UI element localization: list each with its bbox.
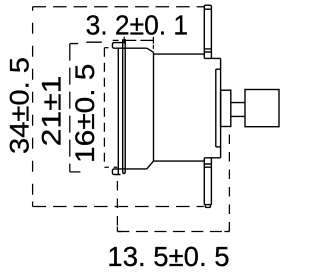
dimension 3.2±0.1 right extension dash xyxy=(152,45,154,52)
dimension 3.2±0.1 left end tick xyxy=(123,37,125,44)
top terminal pin outline xyxy=(204,5,211,58)
svg-text:3. 2±0. 1: 3. 2±0. 1 xyxy=(86,9,189,40)
bottom terminal pin tip xyxy=(205,205,210,208)
top terminal pin crimp lines xyxy=(204,49,211,52)
frame inner bottom cap xyxy=(216,146,221,148)
dimension 16±0.5 top arm dashed xyxy=(104,47,108,49)
cover top crimp lip xyxy=(112,43,146,49)
dimension 16±0.5 vertical dashed line xyxy=(103,48,105,168)
body bottom-left chamfer xyxy=(147,161,154,169)
dimension 34±0.5 bottom extension dashed line xyxy=(33,206,204,208)
frame outer right edge xyxy=(220,58,222,157)
svg-text:13. 5±0. 5: 13. 5±0. 5 xyxy=(107,241,229,272)
cover inner wall xyxy=(117,48,119,174)
bushing xyxy=(221,90,231,126)
body top step line xyxy=(204,57,220,59)
dimension 13.5±0.5 left extension dashed vertical xyxy=(116,181,118,232)
body top flat xyxy=(154,53,205,55)
frame inner top cap xyxy=(216,68,221,70)
dimension 13.5±0.5 dimension dashed line xyxy=(117,231,229,233)
dimension 21±1 bottom arm xyxy=(70,171,81,173)
bottom terminal pin outline xyxy=(204,158,211,205)
bottom terminal pin crimp lines xyxy=(204,164,211,167)
dimension 3.2±0.1 right end tick xyxy=(152,37,154,44)
dimension 21±1 vertical dashed line xyxy=(69,44,71,172)
rotor plate edge-on xyxy=(123,40,126,174)
bottom terminal pin cap line xyxy=(204,204,211,206)
svg-text:16±0. 5: 16±0. 5 xyxy=(70,64,100,163)
dimension 13.5±0.5 right extension dashed vertical xyxy=(228,129,230,232)
body bottom flat xyxy=(154,160,205,162)
frame inner edge xyxy=(215,69,217,147)
dimension 3.2±0.1 dashed dimension line xyxy=(113,39,154,41)
knob xyxy=(245,90,279,127)
cover bottom crimp lip xyxy=(112,169,146,175)
dimension 16±0.5 bottom arm dashed xyxy=(104,166,117,168)
dimension 34±0.5 top extension dashed line xyxy=(33,6,205,8)
rotor plate top cap xyxy=(122,39,126,41)
body bottom step line xyxy=(204,157,220,159)
dimension leader corner stubs xyxy=(33,202,230,232)
svg-text:34±0. 5: 34±0. 5 xyxy=(5,57,35,154)
dimension 21±1 top arm xyxy=(70,42,102,43)
top terminal pin cap line xyxy=(204,8,211,10)
svg-text:21±1: 21±1 xyxy=(37,76,67,147)
shaft xyxy=(231,103,245,117)
body top-left chamfer xyxy=(147,48,154,52)
body left edge xyxy=(153,52,155,161)
dimension 34±0.5 vertical dashed line xyxy=(32,7,34,207)
